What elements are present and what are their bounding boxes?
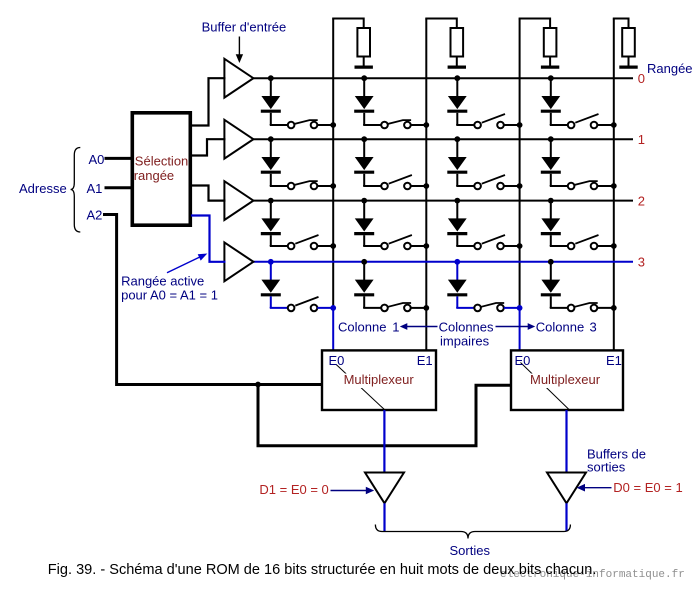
node junction colonne 2 / switch row 0 [517,122,523,128]
svg-text:D1 = E0 = 0: D1 = E0 = 0 [259,482,328,497]
svg-text:pour A0 = A1 = 1: pour A0 = A1 = 1 [121,287,218,302]
wire row line rangée 2 (horizontal word line) [253,200,633,202]
diode D11 (rangée 1 to colonne 1) [354,139,374,186]
node junction colonne 1 / switch row 2 [423,243,429,249]
multiplexer U3 box (colonnes 2/3) [511,350,623,410]
wire address input A1 [105,186,133,189]
node junction colonne 3 / switch row 1 [611,183,617,189]
label 'Rangée active pour A0 = A1 = 1' with blue arrow [121,254,218,303]
label 'Buffer d'entrée' with arrow [202,19,287,63]
switch S00 (closed programming contact) [270,120,333,128]
switch S03 (open programming contact) [550,114,614,128]
label 'Adresse' with brace [19,148,80,233]
label multiplexer U2 pins E0 E1 [329,353,433,387]
node junction on rangée 3 at diode D32 [454,259,460,265]
node junction on rangée 2 at diode D20 [268,198,274,204]
node junction colonne 0 / switch row 1 [330,183,336,189]
node junction colonne 3 / switch row 0 [611,122,617,128]
svg-text:Rangée: Rangée [647,61,693,76]
wire decoder output 0 to buffer B0 [192,78,224,125]
label A1 [87,181,103,196]
wire decoder output 2 to buffer B2 [192,186,224,201]
diode D00 (rangée 0 to colonne 0) [261,78,281,125]
svg-text:E0: E0 [329,353,345,368]
svg-text:1: 1 [638,132,645,147]
diode D33 (rangée 3 to colonne 3) [541,262,561,308]
resistor R2 (pull-up of colonne 2) with +V rail bar [520,19,560,68]
wire output of U3 (blue) to buffer [565,410,567,472]
diode D22 (rangée 2 to colonne 2) [447,201,467,246]
diode D21 (rangée 2 to colonne 1) [354,201,374,246]
node junction on rangée 2 at diode D23 [548,198,554,204]
label 'Colonne 1' with arrow [338,320,438,335]
switch S23 (open programming contact) [550,235,614,249]
wire address input A0 [105,157,133,160]
svg-text:0: 0 [638,71,645,86]
node junction colonne 3 / switch row 3 [611,305,617,311]
label row number 2 (red) [638,193,645,208]
diode D03 (rangée 0 to colonne 3) [541,78,561,125]
diode D30 (rangée 3 to colonne 0) [261,262,281,308]
wire decoder output 1 to buffer B1 [192,139,224,155]
multiplexer U2 box (colonnes 0/1) [322,350,436,410]
wire column line colonne 2 (vertical bit line) [519,19,521,353]
node junction on rangée 3 at diode D33 [548,259,554,265]
label 'Buffers de sorties' [587,447,646,475]
diode D12 (rangée 1 to colonne 2) [447,139,467,186]
node junction on rangée 3 at diode D30 [268,259,274,265]
wire column line colonne 0 (vertical bit line) [332,19,334,353]
resistor R0 (pull-up of colonne 0) with +V rail bar [333,19,373,68]
switch S02 (open programming contact) [456,114,519,128]
buffer amplifier B1 (row 1 driver triangle) [224,120,253,159]
svg-text:Multiplexeur: Multiplexeur [530,372,601,387]
label 'Colonne 3' with arrow [496,320,597,335]
switch S31 (closed programming contact) [363,303,426,311]
buffer output D0 triangle [547,473,586,504]
node junction colonne 2 / switch row 2 [517,243,523,249]
switch S12 (open programming contact) [456,175,519,189]
svg-text:D0 = E0 = 1: D0 = E0 = 1 [613,480,682,495]
switch S10 (closed programming contact) [270,181,333,189]
node junction on rangée 3 at diode D31 [361,259,367,265]
wire output D0 down to sorties [565,503,567,531]
wire row line rangée 3 (horizontal word line) [253,261,633,263]
switch S11 (open programming contact) [363,175,426,189]
wire column line colonne 3 (vertical bit line) [613,19,615,353]
buffer output D1 triangle [365,473,404,504]
svg-text:sorties: sorties [587,460,626,475]
diode D02 (rangée 0 to colonne 2) [447,78,467,125]
wire address input A2 (mux select trunk) [105,215,322,385]
diode D01 (rangée 0 to colonne 1) [354,78,374,125]
svg-text:Sorties: Sorties [450,543,491,558]
watermark site name [500,569,685,581]
wire A2 branch to multiplexer U3 select [258,385,511,446]
svg-text:E0: E0 [515,353,531,368]
diode D32 (rangée 3 to colonne 2) [447,262,467,308]
wire decoder output 3 to buffer B3 (active row, blue) [192,216,224,262]
node junction on rangée 1 at diode D13 [548,136,554,142]
label 'D0 = E0 = 1' with arrow to buffer [577,480,683,495]
node junction colonne 0 / switch row 2 [330,243,336,249]
label A0 [89,152,105,167]
node junction on rangée 1 at diode D12 [454,136,460,142]
wire output D1 down to sorties [383,503,385,531]
node junction colonne 3 / switch row 2 [611,243,617,249]
node junction colonne 1 / switch row 3 [423,305,429,311]
caption Fig. 39 [48,562,597,578]
svg-text:Fig. 39. - Schéma d'une ROM de: Fig. 39. - Schéma d'une ROM de 16 bits s… [48,562,597,578]
label 'Sélection rangée' [134,153,189,183]
wire row line rangée 1 (horizontal word line) [253,138,633,140]
node junction colonne 2 / switch row 3 [517,305,523,311]
diode D10 (rangée 1 to colonne 0) [261,139,281,186]
buffer amplifier B2 (row 2 driver triangle) [224,181,253,220]
node junction on rangée 2 at diode D22 [454,198,460,204]
label 'Sorties' [450,543,491,558]
svg-text:Colonne: Colonne [536,320,584,335]
svg-text:1: 1 [392,320,399,335]
label row number 3 (red) [638,255,645,270]
node junction colonne 0 / switch row 3 [330,305,336,311]
label row number 0 (red) [638,71,645,86]
svg-text:Adresse: Adresse [19,181,67,196]
node junction on rangée 0 at diode D02 [454,75,460,81]
svg-text:A0: A0 [89,152,105,167]
svg-text:Sélection: Sélection [135,153,188,168]
diode D23 (rangée 2 to colonne 3) [541,201,561,246]
switch S32 (closed programming contact) [456,303,519,311]
svg-text:E1: E1 [606,353,622,368]
svg-text:3: 3 [590,320,597,335]
node junction colonne 2 / switch row 1 [517,183,523,189]
label row number 1 (red) [638,132,645,147]
node junction on rangée 0 at diode D01 [361,75,367,81]
node junction on rangée 2 at diode D21 [361,198,367,204]
label 'D1 = E0 = 0' with arrow to buffer [259,482,374,497]
brace grouping outputs [375,525,570,539]
switch S33 (closed programming contact) [550,303,614,311]
node junction colonne 1 / switch row 0 [423,122,429,128]
svg-text:A2: A2 [87,208,103,223]
svg-text:Multiplexeur: Multiplexeur [344,372,415,387]
svg-text:E1: E1 [417,353,433,368]
svg-text:3: 3 [638,255,645,270]
resistor R1 (pull-up of colonne 1) with +V rail bar [426,19,466,68]
svg-text:2: 2 [638,193,645,208]
diode D31 (rangée 3 to colonne 1) [354,262,374,308]
node junction colonne 1 / switch row 1 [423,183,429,189]
switch S22 (open programming contact) [456,235,519,249]
label A2 [87,208,103,223]
wire output of U2 (blue) to buffer [383,410,385,472]
switch S13 (closed programming contact) [550,181,614,189]
switch S20 (open programming contact) [270,235,333,249]
buffer amplifier B3 (row 3 driver triangle) [224,242,253,281]
switch S21 (open programming contact) [363,235,426,249]
diode D13 (rangée 1 to colonne 3) [541,139,561,186]
svg-text:impaires: impaires [440,333,490,348]
wire column line colonne 1 (vertical bit line) [425,19,427,353]
node junction on rangée 1 at diode D11 [361,136,367,142]
node junction on rangée 1 at diode D10 [268,136,274,142]
buffer amplifier B0 (row 0 driver triangle) [224,59,253,98]
svg-text:Colonne: Colonne [338,320,386,335]
wire row line rangée 0 (horizontal word line) [253,77,633,79]
node junction on rangée 0 at diode D00 [268,75,274,81]
switch S01 (closed programming contact) [363,120,426,128]
node junction on rangée 0 at diode D03 [548,75,554,81]
diode D20 (rangée 2 to colonne 0) [261,201,281,246]
label 'Rangée' net name [647,61,693,76]
svg-text:Buffer d'entrée: Buffer d'entrée [202,19,287,34]
svg-text:rangée: rangée [134,168,174,183]
svg-text:A1: A1 [87,181,103,196]
label 'Colonnes impaires' [439,320,494,349]
decoder U1 'Sélection rangée' box [132,113,190,225]
node junction colonne 0 / switch row 0 [330,122,336,128]
label multiplexer U3 pins E0 E1 [515,353,622,387]
resistor R3 (pull-up of colonne 3) with +V rail bar [614,19,638,68]
node junction of A2 select wire [255,382,261,388]
switch S30 (open programming contact) [270,297,333,311]
